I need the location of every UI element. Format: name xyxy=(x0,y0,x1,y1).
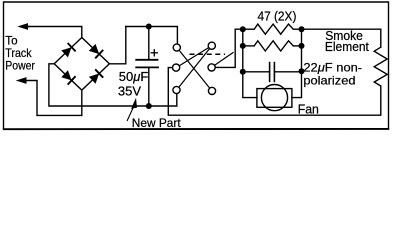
plus sign for C1 xyxy=(151,49,158,56)
wire: resistor R2 left lead xyxy=(243,45,254,47)
svg-text:Fan: Fan xyxy=(298,103,319,117)
wire: bridge bottom vertex lead down xyxy=(81,90,83,115)
junction node: right column row1 xyxy=(299,26,305,32)
diode D2 (top vertex to right vertex) xyxy=(89,44,103,58)
wire: resistor R2 right lead xyxy=(293,45,301,47)
wire: top rail to switch TL terminal xyxy=(126,27,178,44)
resistor R1 47 ohm xyxy=(254,24,293,34)
wire: capacitor C2 right wire xyxy=(274,71,301,73)
capacitor C1 50uF plates xyxy=(135,60,159,68)
svg-text:47 (2X): 47 (2X) xyxy=(258,9,297,23)
svg-text:Power: Power xyxy=(5,58,35,72)
switch crossover wire BL-TR xyxy=(179,49,210,88)
switch blade MR open xyxy=(215,52,234,65)
junction node: right column row2 xyxy=(299,43,305,49)
new part callout arrow xyxy=(127,98,137,121)
wire: capacitor C1 top lead xyxy=(148,27,150,60)
svg-text:polarized: polarized xyxy=(303,73,355,87)
wire: top rail from arrow 1 to bridge top vertex xyxy=(27,27,82,38)
wire: bridge right vertex up to top rail xyxy=(109,27,125,64)
arrow to track power (top) xyxy=(17,23,30,30)
smoke element resistor xyxy=(374,47,387,86)
svg-text:22μF non-: 22μF non- xyxy=(303,60,362,74)
svg-text:35V: 35V xyxy=(118,85,142,99)
svg-text:New Part: New Part xyxy=(132,116,182,130)
junction node: left column row1 xyxy=(240,26,246,32)
junction node: left column C2 xyxy=(240,69,246,75)
diode D4 (bottom vertex to right vertex) xyxy=(89,69,103,83)
wire: left resistor node column down to fan left side xyxy=(243,29,257,97)
switch blade ML-TR xyxy=(179,48,208,66)
wire: capacitor C1 bottom lead to rail A xyxy=(148,67,150,106)
fan motor M1 xyxy=(257,85,292,111)
wire: bridge left vertex to DC minus rail (rail A) up to switch BL xyxy=(49,64,177,106)
resistor R2 47 ohm xyxy=(254,41,293,51)
junction node: top rail / C1 xyxy=(146,24,152,30)
switch mechanical link (dashed) xyxy=(190,53,226,55)
diode D1 (left vertex to top vertex) xyxy=(61,43,75,57)
svg-text:50μF: 50μF xyxy=(119,70,149,84)
wire: resistor R1 right lead xyxy=(293,28,301,30)
svg-text:Element: Element xyxy=(325,40,370,54)
wire: switch ML terminal to bottom return wire to smoke element bottom xyxy=(168,68,380,116)
switch S1 terminals (DPDT) xyxy=(173,42,216,94)
wire: resistor R1 left lead xyxy=(243,28,254,30)
junction node: right column C2 xyxy=(299,68,305,74)
wire: switch MR terminal up to resistor left node xyxy=(215,29,243,67)
switch crossover wire TL-BR xyxy=(179,50,210,88)
junction node: left column row2 xyxy=(240,43,246,49)
wire: arrow 2 tail down to lower-left rail to bridge bottom vertex xyxy=(26,81,82,116)
wire: capacitor C2 left wire xyxy=(243,71,270,73)
capacitor C2 22uF non-polarized plates xyxy=(270,62,275,82)
wire: right resistor node column down to fan right side xyxy=(292,29,302,97)
diode D3 (left vertex to bottom vertex) xyxy=(61,70,75,84)
bridge rectifier diamond xyxy=(54,38,109,91)
border frame (figure box) xyxy=(4,2,389,129)
junction node: rail A / C1 xyxy=(146,103,152,109)
wire: top right rail to smoke element top xyxy=(302,29,381,47)
arrow to track power (bottom) xyxy=(16,77,27,84)
